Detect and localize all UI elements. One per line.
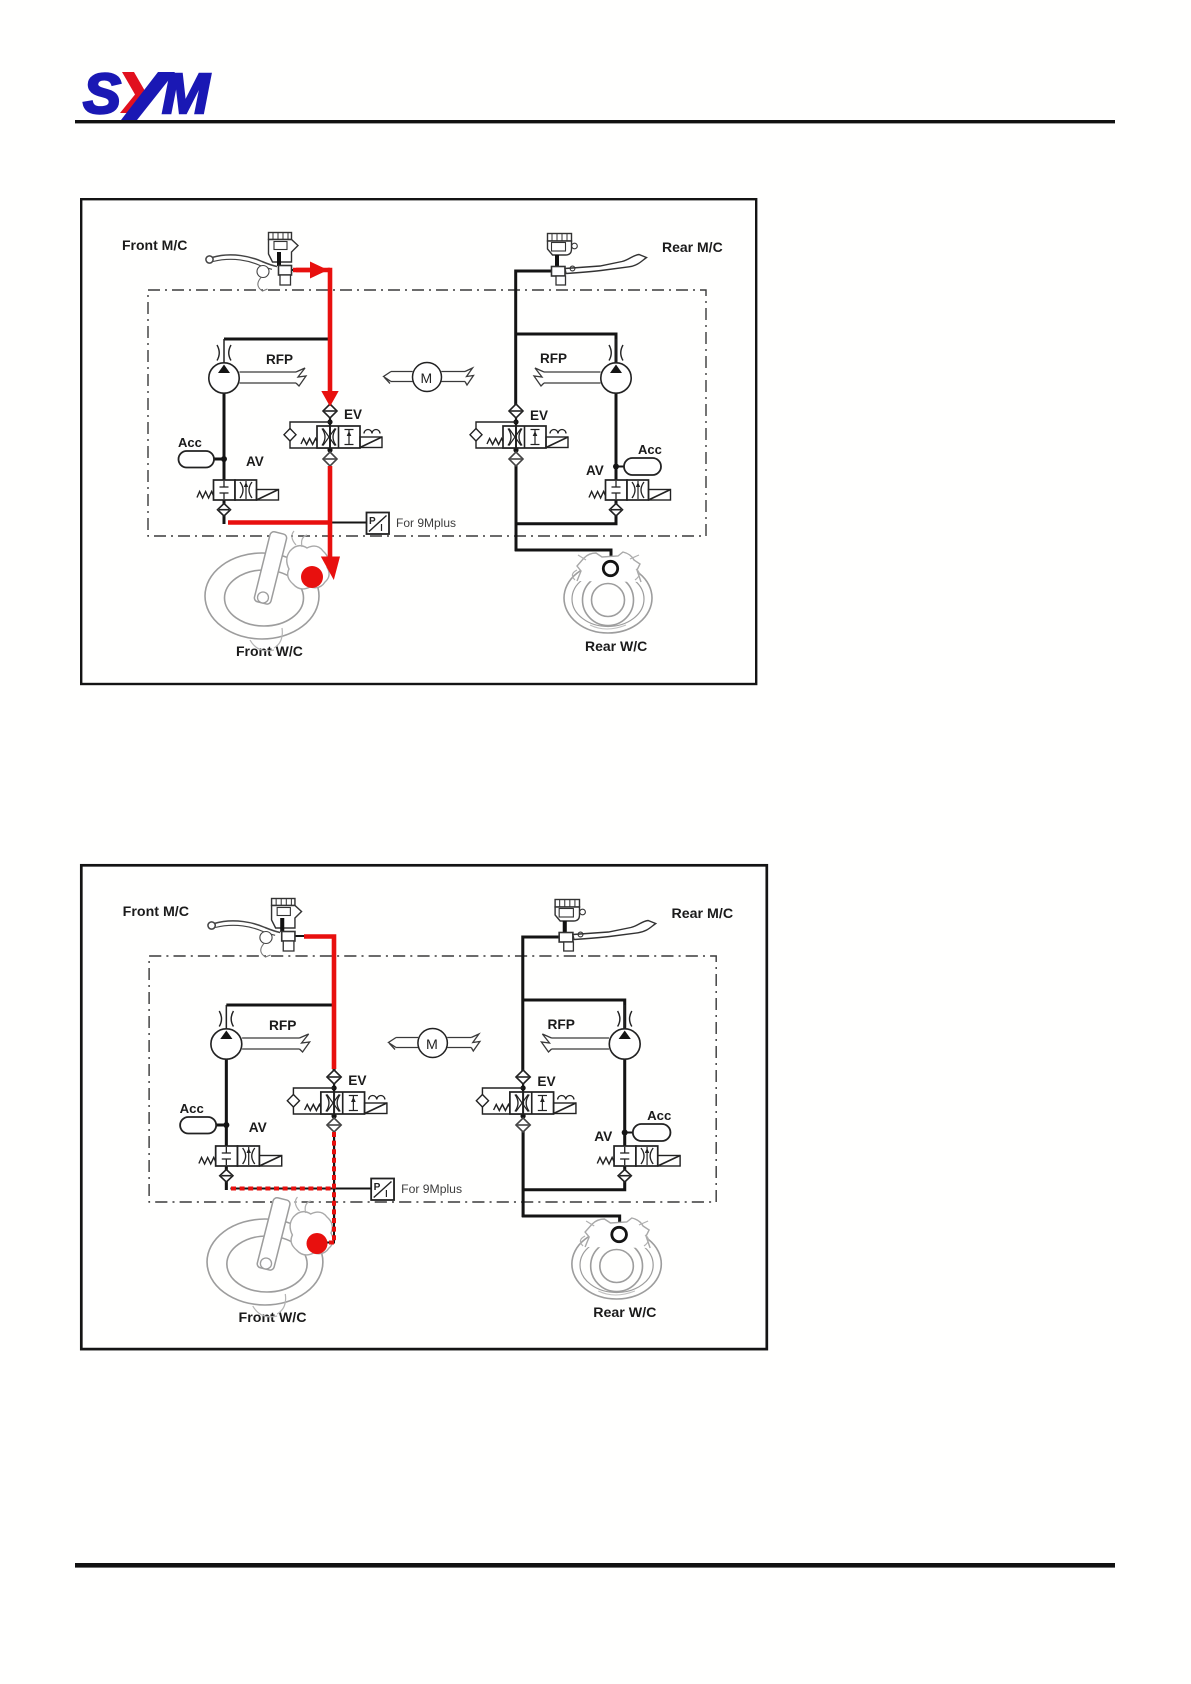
- svg-text:M: M: [162, 62, 211, 126]
- svg-text:S: S: [83, 62, 121, 126]
